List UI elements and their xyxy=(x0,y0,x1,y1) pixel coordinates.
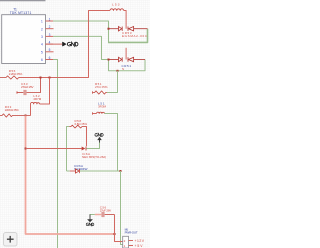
capacitor C63 xyxy=(17,78,41,96)
inductor L51 xyxy=(96,112,104,113)
svg-text:+5V: +5V xyxy=(135,244,144,248)
inductor L53 xyxy=(110,9,124,11)
L51 left lead xyxy=(92,113,96,115)
GND flag pin4 xyxy=(63,42,78,46)
red lead to CR6A anode xyxy=(70,170,76,172)
wire L62 left down to R63 row xyxy=(30,104,32,116)
wire to IC6A anode xyxy=(26,148,82,150)
junction CR53 left anode xyxy=(108,28,110,30)
svg-text:TDK MT1371: TDK MT1371 xyxy=(10,11,32,15)
svg-text:1: 1 xyxy=(41,20,43,24)
capacitor C56 xyxy=(102,212,114,217)
svg-text:NEC 8P2(TO-262): NEC 8P2(TO-262) xyxy=(82,155,106,159)
wire L62 right up to R56 row xyxy=(40,78,50,105)
svg-text:5: 5 xyxy=(41,50,43,54)
svg-text:PWR-OUT: PWR-OUT xyxy=(125,231,138,235)
svg-text:270uF 25V: 270uF 25V xyxy=(21,85,34,89)
svg-text:3R3M: 3R3M xyxy=(98,104,107,108)
junction R56 row right xyxy=(49,77,51,79)
wire R51 right green up to rail xyxy=(107,71,118,93)
wire IC6A cathode to GND (green) xyxy=(86,142,99,149)
CR51 center tap stub xyxy=(125,48,127,60)
wire L53 right to CR53 center xyxy=(124,11,127,29)
svg-text:EGSMA2-004: EGSMA2-004 xyxy=(122,34,147,38)
svg-text:TH400FW: TH400FW xyxy=(74,167,88,171)
wire pin1 to CR53 (green) xyxy=(53,21,109,42)
junction R56 row left xyxy=(40,77,42,79)
wire C56 left to GND (green stub) xyxy=(90,214,95,216)
svg-text:+12V: +12V xyxy=(135,239,145,243)
junction CR6A rail xyxy=(120,170,122,172)
GND flag middle (up) xyxy=(95,133,103,142)
junction CR51 left anode xyxy=(108,59,110,61)
junction lower green rail xyxy=(117,70,119,72)
svg-text:6: 6 xyxy=(49,56,51,60)
svg-text:2: 2 xyxy=(49,25,51,29)
svg-text:S: S xyxy=(122,67,124,71)
diode IC6A xyxy=(82,147,86,151)
wire R58 right down to IC6A cathode xyxy=(84,127,87,147)
resistor R51 xyxy=(92,91,107,94)
highlighted wire (salmon) down and across bottom xyxy=(26,116,115,235)
dual diode CR53 xyxy=(109,27,148,31)
wire C56 left lead (salmon) xyxy=(95,214,102,216)
green rail CR6A left xyxy=(67,170,70,172)
svg-text:1: 1 xyxy=(49,17,51,21)
svg-text:4: 4 xyxy=(41,43,43,47)
wire L51 right down to CR6A rail xyxy=(104,114,117,172)
svg-text:2.2KΩ ±5%: 2.2KΩ ±5% xyxy=(9,72,23,76)
wire pin4 to GND flag xyxy=(46,43,63,45)
GND flag bottom (down) xyxy=(86,215,94,226)
svg-text:220KΩ ±5%: 220KΩ ±5% xyxy=(5,108,19,112)
pin stub +5V xyxy=(129,245,134,247)
resistor R63 xyxy=(0,114,31,117)
svg-text:5: 5 xyxy=(49,48,51,52)
diode CR6A xyxy=(75,169,79,173)
T1 pin stubs xyxy=(46,21,54,60)
wire C56 down to PWR-OUT xyxy=(115,215,123,242)
connector M1 box xyxy=(123,236,129,248)
junction IC6A row xyxy=(25,148,27,150)
wire L53 left to R56 row xyxy=(19,11,110,78)
T1 pin numbers xyxy=(41,17,51,62)
inductor L62 xyxy=(31,102,40,104)
wire pin6 long green vertical xyxy=(53,60,58,248)
svg-text:3: 3 xyxy=(49,33,51,37)
clipped component edge at top xyxy=(0,0,46,2)
resistor R56 xyxy=(0,76,19,79)
svg-text:27uF 26V: 27uF 26V xyxy=(100,208,112,212)
svg-text:4R7M: 4R7M xyxy=(33,97,42,101)
svg-text:6: 6 xyxy=(41,58,43,62)
wire pin3 (green) xyxy=(53,36,145,70)
wire R58 left green down to CR6A rail xyxy=(67,127,70,172)
junction salmon meets red xyxy=(114,233,116,235)
svg-text:3: 3 xyxy=(41,35,43,39)
transformer T1 box xyxy=(2,15,46,64)
resistor R58 xyxy=(71,125,84,128)
svg-text:6.8Ω ±5%: 6.8Ω ±5% xyxy=(75,122,88,126)
green rail CR6A right xyxy=(80,170,121,172)
zoom plus button xyxy=(4,233,18,247)
svg-text:2: 2 xyxy=(41,27,43,31)
junction R63 row xyxy=(25,115,27,117)
wire thick green to CR53 right anode xyxy=(108,29,148,43)
svg-text:27Ω ±5%: 27Ω ±5% xyxy=(95,85,108,89)
wire green down to PWR-OUT xyxy=(121,171,123,245)
pin stub +12V xyxy=(129,240,134,242)
dual diode CR51 xyxy=(109,57,146,61)
wire R58 left red segment xyxy=(69,126,71,128)
svg-text:L53: L53 xyxy=(112,3,120,7)
L51 left pin tick xyxy=(92,112,94,114)
R51 left pin tick xyxy=(92,91,94,93)
